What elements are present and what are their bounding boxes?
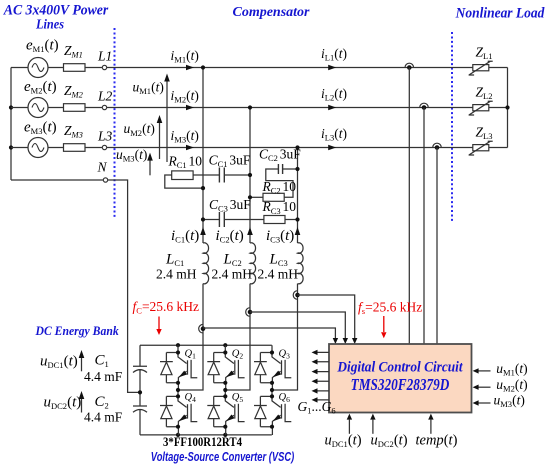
input arrow uM1 (right) [478,370,490,372]
junction: rail leg2 top [223,343,227,347]
svg-text:L1: L1 [97,49,112,64]
wire: RC3 to phase C [285,219,298,221]
source eM3 [28,138,48,158]
svg-text:uM2(t): uM2(t) [124,121,155,138]
capacitor CC1 [193,174,250,176]
svg-text:uDC2(t): uDC2(t) [371,433,408,450]
wire: compensator phase A tap [178,68,203,391]
current arrow iC2 [247,227,253,235]
svg-text:iM2(t): iM2(t) [171,88,199,105]
current sensor iC2 on phase B [246,308,253,317]
svg-text:LC2: LC2 [223,252,242,269]
wire: row L2 [11,107,508,109]
boundary dotted line right (compensator / load) [451,32,453,222]
svg-text:Lines: Lines [35,16,64,32]
wire: row L3 [11,147,508,149]
svg-text:iL2(t): iL2(t) [321,86,347,103]
terminal L1 [102,65,106,69]
svg-text:2.4 mH: 2.4 mH [156,267,197,282]
current sensor on L3 [433,143,442,150]
svg-text:iL1(t): iL1(t) [321,46,347,63]
wire: sensor iC1 to DCC [203,328,335,339]
wire: sensor iC2 to DCC [250,312,345,339]
transistor Q6 [254,389,291,435]
voltage arrow uDC2 [81,397,83,413]
wire: sensor iC3 to DCC [298,295,355,339]
svg-text:Voltage-Source Converter (VSC): Voltage-Source Converter (VSC) [151,450,294,464]
junction: leg2 midpoint [223,388,227,392]
impedance ZM2 [64,104,86,112]
terminal L2 [102,105,106,109]
current sensor on L1 (iL1 measurement) [405,63,414,70]
voltage arrow uDC1 [81,356,83,371]
svg-text:iC3(t): iC3(t) [266,228,294,245]
wire: compensator phase C tap [272,148,298,391]
current arrow iM1 [186,65,194,71]
svg-text:uM2(t): uM2(t) [496,377,527,394]
svg-text:L3: L3 [97,129,113,144]
svg-text:eM1(t): eM1(t) [26,38,59,55]
svg-text:DC Energy Bank: DC Energy Bank [35,323,120,338]
wire: left source bus [10,68,12,181]
svg-text:G1...G6: G1...G6 [298,399,336,416]
Digital Control Circuit box [329,344,472,413]
current arrow iM3 [186,145,194,151]
wire: sensor L3 to DCC [436,148,438,345]
svg-text:Compensator: Compensator [232,5,310,20]
capacitor CC2 [266,169,298,197]
svg-text:iM3(t): iM3(t) [171,128,199,145]
svg-text:LC3: LC3 [269,252,288,269]
terminal N [103,178,107,182]
svg-text:ZM1: ZM1 [64,43,83,60]
svg-text:RC110: RC110 [168,153,203,170]
load ZL2 [469,101,493,115]
svg-text:RC210: RC210 [262,179,297,196]
input arrow uDC1 (bottom) [348,420,350,434]
inductor LC1 [203,243,209,284]
junction: leg1 midpoint [176,388,180,392]
svg-text:Q3: Q3 [279,349,291,361]
current arrow iL1 [328,65,336,71]
transistor Q2 [207,345,244,391]
current arrow iC1 [200,227,206,235]
svg-text:ZM3: ZM3 [64,123,83,140]
svg-text:iC2(t): iC2(t) [216,228,244,245]
svg-text:uDC2(t): uDC2(t) [44,395,82,412]
impedance ZM1 [64,64,86,72]
svg-text:uM3(t): uM3(t) [116,147,147,164]
transistor Q3 [254,345,291,391]
resistor RC3 [264,216,285,224]
svg-text:uDC1(t): uDC1(t) [40,353,78,370]
svg-text:CC23uF: CC23uF [259,146,301,163]
source eM2 [28,98,48,118]
wire: neutral N row [11,180,140,392]
svg-text:N: N [97,160,108,175]
input arrow uM3 (right) [478,402,490,404]
wire: RC2 to phase B [250,196,263,198]
svg-text:3*FF100R12RT4: 3*FF100R12RT4 [163,435,243,449]
wire: VSC positive rail [140,344,272,346]
svg-text:C1: C1 [95,353,109,370]
svg-text:ZL3: ZL3 [476,125,493,142]
junction: rail leg1 top [176,343,180,347]
svg-text:ZL1: ZL1 [476,45,493,62]
svg-text:ZL2: ZL2 [476,85,493,102]
svg-text:eM2(t): eM2(t) [24,79,57,96]
svg-text:CC33uF: CC33uF [209,197,251,214]
svg-text:Q5: Q5 [232,392,244,404]
inductor LC2 [250,243,256,284]
terminal L3 [102,145,106,149]
svg-text:LC1: LC1 [165,252,184,269]
junction: bus row3 [9,145,13,149]
svg-text:Q2: Q2 [232,349,244,361]
junction: DC midpoint [138,390,142,394]
capacitor CC3 [203,219,264,221]
red arrow fc [158,317,160,330]
wire: VSC negative rail [140,434,272,436]
svg-text:Q6: Q6 [279,392,291,404]
impedance ZM3 [64,144,86,152]
svg-text:fs=25.6 kHz: fs=25.6 kHz [358,299,422,316]
input arrow temp (bottom) [430,420,432,434]
load ZL3 [469,141,493,155]
svg-text:eM3(t): eM3(t) [24,119,57,136]
inductor LC3 [298,243,304,284]
source eM1 [28,58,48,78]
wire: load right bus [507,68,509,148]
junction: bus row2 [9,105,13,109]
voltage arrow uM2 [159,121,161,160]
current sensor on L2 [420,103,429,110]
svg-text:uDC1(t): uDC1(t) [325,433,362,450]
svg-text:Q4: Q4 [185,392,197,404]
wire: compensator phase B tap [225,108,250,391]
svg-text:4.4 mF: 4.4 mF [84,410,123,425]
input arrow uDC2 (bottom) [372,420,374,434]
current arrow iM2 [186,105,194,111]
svg-text:uM1(t): uM1(t) [496,361,527,378]
svg-text:L2: L2 [97,89,113,104]
svg-text:ZM2: ZM2 [64,83,84,100]
svg-text:C2: C2 [95,394,109,411]
capacitor C1 (DC bank) [133,345,147,435]
svg-text:Digital Control Circuit: Digital Control Circuit [336,360,463,376]
gate drive arrows G1..G6 [312,350,330,403]
junction: rail leg2 bottom [223,433,227,437]
boundary dotted line left (sources / compensator) [114,28,116,218]
svg-text:Nonlinear Load: Nonlinear Load [455,5,546,22]
current sensor iC3 on phase C [293,291,300,300]
wire: RC1 left loop to phase A [165,175,203,188]
svg-text:iM1(t): iM1(t) [171,48,199,65]
svg-text:fC=25.6 kHz: fC=25.6 kHz [133,299,200,316]
transistor Q4 [160,389,197,435]
svg-text:2.4 mH: 2.4 mH [258,267,299,282]
junction: leg3 midpoint [270,388,274,392]
resistor RC2 [263,193,284,201]
voltage arrow uM3 [149,158,151,175]
junction: rail leg1 bottom [176,433,180,437]
current arrow iL2 [328,105,336,111]
svg-text:uM1(t): uM1(t) [133,80,164,97]
red arrow fs [383,316,385,332]
junction: load bus row2 [505,105,509,109]
svg-text:CC13uF: CC13uF [209,152,251,169]
svg-text:iC1(t): iC1(t) [171,228,199,245]
wire: row L1 [11,67,508,69]
wire: sensor L1 to DCC [408,68,410,345]
svg-text:temp(t): temp(t) [416,433,458,449]
svg-text:iL3(t): iL3(t) [321,126,347,143]
svg-text:uM3(t): uM3(t) [494,393,525,410]
current arrow iL3 [328,145,336,151]
resistor RC1 [172,171,193,180]
current arrow iC3 [295,227,301,235]
svg-text:2.4 mH: 2.4 mH [212,267,253,282]
svg-text:4.4 mF: 4.4 mF [84,369,123,384]
transistor Q1 [160,345,197,391]
load ZL1 [469,61,493,75]
transistor Q5 [207,389,244,435]
current sensor iC1 on phase A [199,324,206,333]
wire: sensor L2 to DCC [423,108,425,345]
svg-text:Q1: Q1 [185,349,197,361]
svg-text:TMS320F28379D: TMS320F28379D [351,375,450,394]
voltage arrow uM1 [166,79,168,162]
input arrow uM2 (right) [478,386,490,388]
